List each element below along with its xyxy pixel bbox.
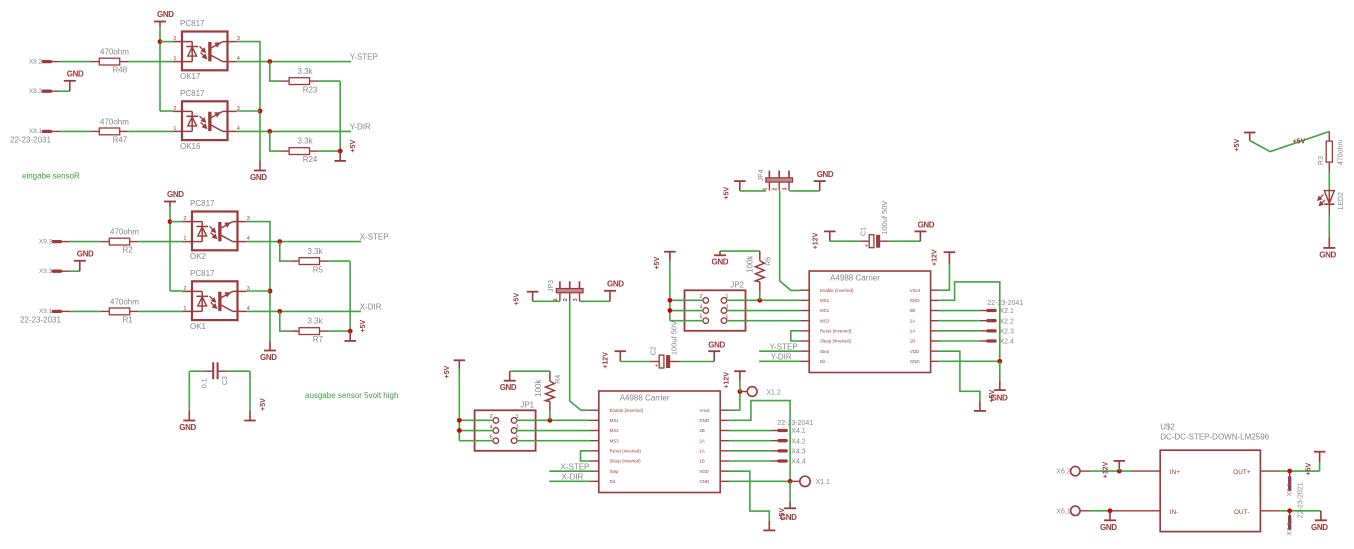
svg-text:GND: GND: [910, 359, 920, 364]
svg-text:2: 2: [183, 216, 186, 222]
svg-text:470ohm: 470ohm: [110, 228, 139, 237]
svg-text:1B: 1B: [699, 459, 704, 464]
svg-text:GND: GND: [712, 258, 729, 267]
svg-text:1: 1: [183, 306, 186, 312]
svg-text:2: 2: [173, 106, 176, 112]
svg-text:Vmot: Vmot: [699, 408, 710, 413]
svg-text:GND: GND: [157, 10, 174, 19]
svg-text:R48: R48: [113, 65, 128, 74]
svg-text:R47: R47: [113, 135, 128, 144]
svg-text:A4988 Carrier: A4988 Carrier: [620, 394, 670, 403]
svg-text:+5V: +5V: [360, 320, 367, 333]
svg-text:OUT+: OUT+: [1233, 469, 1251, 476]
svg-text:GND: GND: [179, 423, 196, 432]
svg-text:GND: GND: [780, 513, 797, 522]
svg-text:Enable (inverted): Enable (inverted): [610, 408, 644, 413]
svg-text:X9.1: X9.1: [39, 308, 53, 315]
svg-text:22-23-2031: 22-23-2031: [10, 136, 51, 145]
svg-text:+5V: +5V: [1293, 138, 1306, 145]
svg-text:1A: 1A: [699, 448, 704, 453]
svg-text:X2.3: X2.3: [1000, 328, 1015, 335]
svg-text:2: 2: [563, 298, 569, 301]
svg-text:X1.2: X1.2: [766, 390, 781, 397]
svg-text:X4.4: X4.4: [791, 459, 806, 466]
svg-text:GND: GND: [817, 170, 834, 179]
svg-text:X8.3: X8.3: [29, 88, 43, 95]
svg-text:1: 1: [516, 414, 519, 420]
svg-text:X9.2: X9.2: [39, 238, 53, 245]
svg-text:IN+: IN+: [1170, 469, 1181, 476]
svg-text:2: 2: [173, 36, 176, 42]
svg-text:GND: GND: [1100, 523, 1117, 532]
svg-text:6: 6: [490, 434, 493, 440]
svg-text:GND: GND: [991, 393, 1008, 402]
svg-text:Sleep (inverted): Sleep (inverted): [820, 339, 852, 344]
svg-text:1: 1: [725, 294, 728, 300]
svg-text:+: +: [865, 243, 869, 249]
svg-text:Reset (inverted): Reset (inverted): [610, 448, 642, 453]
svg-text:X2.2: X2.2: [1000, 318, 1015, 325]
svg-text:3.3k: 3.3k: [308, 247, 324, 256]
svg-text:+12V: +12V: [932, 249, 939, 266]
svg-text:R7: R7: [313, 335, 324, 344]
svg-text:MS2: MS2: [610, 428, 620, 433]
svg-text:PC817: PC817: [180, 89, 205, 98]
svg-text:R23: R23: [303, 85, 318, 94]
svg-text:IN-: IN-: [1170, 509, 1179, 516]
svg-text:GND: GND: [1319, 250, 1336, 259]
svg-text:VDD: VDD: [699, 469, 708, 474]
svg-text:X8.2: X8.2: [29, 58, 43, 65]
svg-text:100k: 100k: [534, 379, 543, 397]
svg-text:R2: R2: [123, 245, 134, 254]
svg-text:Y-STEP: Y-STEP: [770, 342, 798, 351]
svg-text:+5V: +5V: [1234, 139, 1241, 152]
svg-text:GND: GND: [167, 190, 184, 199]
svg-text:U$2: U$2: [1160, 423, 1175, 432]
svg-text:JP4: JP4: [758, 169, 765, 181]
svg-text:2B: 2B: [699, 428, 704, 433]
svg-text:3: 3: [516, 424, 519, 430]
svg-text:X2.4: X2.4: [1000, 339, 1015, 346]
svg-text:MS1: MS1: [820, 298, 830, 303]
svg-text:eingabe sensoR: eingabe sensoR: [22, 171, 80, 180]
svg-text:2: 2: [490, 414, 493, 420]
svg-text:+5V: +5V: [444, 365, 451, 378]
svg-text:OK17: OK17: [180, 72, 201, 81]
svg-text:Y-DIR: Y-DIR: [771, 353, 792, 362]
svg-text:X2.1: X2.1: [1000, 308, 1015, 315]
svg-text:OUT-: OUT-: [1234, 509, 1250, 516]
svg-text:Y-STEP: Y-STEP: [350, 52, 378, 61]
svg-text:MS3: MS3: [610, 438, 620, 443]
svg-text:Enable (inverted): Enable (inverted): [820, 288, 854, 293]
svg-text:X6.1: X6.1: [1056, 508, 1071, 515]
svg-text:Sleep (inverted): Sleep (inverted): [610, 459, 642, 464]
svg-text:+12V: +12V: [1103, 461, 1110, 478]
svg-text:22-23-2031: 22-23-2031: [20, 316, 61, 325]
svg-text:JP3: JP3: [548, 280, 555, 292]
svg-text:GND: GND: [607, 280, 624, 289]
svg-text:OK1: OK1: [190, 322, 207, 331]
svg-text:X-STEP: X-STEP: [561, 462, 590, 471]
svg-text:Y-DIR: Y-DIR: [350, 123, 371, 132]
svg-text:0.1: 0.1: [201, 378, 208, 388]
svg-text:100uf 50V: 100uf 50V: [880, 201, 889, 235]
svg-text:DC-DC-STEP-DOWN-LM2596: DC-DC-STEP-DOWN-LM2596: [1160, 432, 1269, 441]
svg-text:GND: GND: [67, 70, 84, 79]
svg-text:GND: GND: [918, 221, 935, 230]
svg-text:4: 4: [490, 424, 493, 430]
svg-text:2: 2: [183, 286, 186, 292]
svg-text:+5V: +5V: [350, 140, 357, 153]
svg-text:1: 1: [183, 236, 186, 242]
svg-text:C1: C1: [860, 227, 867, 236]
svg-text:22-23-2041: 22-23-2041: [987, 300, 1023, 307]
svg-text:GND: GND: [708, 341, 725, 350]
svg-text:5: 5: [516, 434, 519, 440]
svg-text:PC817: PC817: [190, 269, 215, 278]
svg-text:+12V: +12V: [602, 352, 609, 369]
svg-text:1A: 1A: [910, 328, 915, 333]
svg-text:2B: 2B: [910, 308, 915, 313]
svg-text:2A: 2A: [699, 438, 704, 443]
svg-text:MS3: MS3: [820, 318, 830, 323]
svg-text:GND: GND: [77, 250, 94, 259]
svg-text:R1: R1: [123, 315, 134, 324]
svg-text:X1.1: X1.1: [816, 479, 831, 486]
svg-text:R6: R6: [766, 257, 773, 266]
svg-text:3: 3: [725, 304, 728, 310]
svg-text:JP1: JP1: [520, 401, 534, 410]
svg-text:PC817: PC817: [180, 19, 205, 28]
svg-text:Dir: Dir: [610, 479, 616, 484]
svg-text:+12V: +12V: [813, 232, 820, 249]
svg-text:LED2: LED2: [1338, 192, 1345, 210]
svg-text:GND: GND: [250, 173, 267, 182]
svg-text:ausgabe sensor 5volt high: ausgabe sensor 5volt high: [305, 391, 398, 400]
svg-text:+12V: +12V: [723, 372, 730, 389]
svg-text:Step: Step: [610, 469, 620, 474]
svg-text:1: 1: [173, 126, 176, 132]
svg-text:R3: R3: [1318, 156, 1325, 165]
svg-text:100k: 100k: [746, 255, 755, 273]
svg-text:OK2: OK2: [190, 252, 207, 261]
svg-text:X7.1: X7.1: [1287, 483, 1294, 497]
svg-text:X9.3: X9.3: [39, 268, 53, 275]
svg-text:MS1: MS1: [610, 418, 620, 423]
svg-text:1: 1: [173, 56, 176, 62]
svg-text:X4.2: X4.2: [791, 438, 806, 445]
svg-text:+: +: [655, 364, 659, 370]
svg-text:X-DIR: X-DIR: [562, 473, 584, 482]
svg-text:2A: 2A: [910, 318, 915, 323]
svg-text:X-DIR: X-DIR: [360, 303, 382, 312]
svg-text:C3: C3: [222, 376, 229, 385]
svg-text:+5V: +5V: [260, 398, 267, 411]
svg-text:R5: R5: [313, 265, 324, 274]
svg-text:Reset (inverted): Reset (inverted): [820, 328, 852, 333]
svg-text:6: 6: [700, 314, 703, 320]
svg-text:OK16: OK16: [180, 142, 201, 151]
svg-text:470ohm: 470ohm: [100, 48, 129, 57]
svg-text:GND: GND: [1311, 523, 1328, 532]
svg-text:470ohm: 470ohm: [1337, 140, 1344, 165]
svg-text:2: 2: [773, 188, 779, 191]
svg-text:4: 4: [700, 304, 703, 310]
svg-text:VDD: VDD: [910, 349, 919, 354]
svg-text:A4988 Carrier: A4988 Carrier: [830, 274, 880, 283]
svg-text:100uf 50V: 100uf 50V: [670, 321, 679, 355]
svg-text:X8.1: X8.1: [29, 128, 43, 135]
svg-text:MS2: MS2: [820, 308, 830, 313]
svg-text:X4.3: X4.3: [791, 448, 806, 455]
svg-text:3: 3: [782, 188, 788, 191]
svg-text:R24: R24: [303, 155, 318, 164]
svg-text:GND: GND: [699, 418, 709, 423]
svg-text:22-23-2041: 22-23-2041: [777, 420, 813, 427]
svg-text:5: 5: [725, 314, 728, 320]
svg-text:GND: GND: [699, 479, 709, 484]
svg-text:470ohm: 470ohm: [110, 298, 139, 307]
svg-text:3.3k: 3.3k: [298, 137, 314, 146]
svg-text:3.3k: 3.3k: [308, 317, 324, 326]
svg-text:470ohm: 470ohm: [100, 118, 129, 127]
svg-text:GND: GND: [260, 353, 277, 362]
svg-text:2: 2: [700, 294, 703, 300]
svg-text:GND: GND: [910, 298, 920, 303]
svg-text:Dir: Dir: [820, 359, 826, 364]
svg-text:+5V: +5V: [513, 293, 520, 306]
svg-text:C2: C2: [650, 346, 657, 355]
svg-text:+5V: +5V: [1306, 463, 1313, 476]
svg-text:+5V: +5V: [723, 187, 730, 200]
svg-text:X7.2: X7.2: [1287, 522, 1294, 536]
svg-text:3: 3: [573, 298, 579, 301]
svg-text:X4.1: X4.1: [791, 428, 806, 435]
svg-text:R4: R4: [555, 375, 562, 384]
svg-text:X-STEP: X-STEP: [360, 232, 389, 241]
svg-text:PC817: PC817: [190, 199, 215, 208]
svg-text:Step: Step: [820, 349, 830, 354]
svg-text:1B: 1B: [910, 339, 915, 344]
svg-text:JP2: JP2: [730, 281, 744, 290]
svg-text:X6.2: X6.2: [1056, 469, 1071, 476]
svg-text:3.3k: 3.3k: [298, 67, 314, 76]
svg-text:Vmot: Vmot: [910, 288, 921, 293]
svg-text:22-23-2021: 22-23-2021: [1297, 482, 1304, 518]
svg-text:GND: GND: [500, 383, 517, 392]
svg-text:+5V: +5V: [654, 257, 661, 270]
